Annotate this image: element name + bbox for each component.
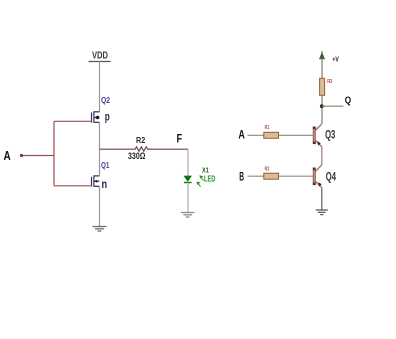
svg-text:X1: X1 bbox=[202, 166, 209, 174]
svg-text:B: B bbox=[239, 170, 244, 184]
svg-text:R2: R2 bbox=[265, 167, 270, 173]
svg-text:R1: R1 bbox=[265, 125, 270, 131]
svg-text:p: p bbox=[105, 110, 110, 124]
svg-text:R3: R3 bbox=[327, 79, 333, 85]
svg-text:A: A bbox=[238, 127, 245, 141]
svg-text:Q1: Q1 bbox=[101, 160, 109, 170]
svg-text:F: F bbox=[177, 132, 183, 146]
svg-text:n: n bbox=[102, 179, 108, 191]
svg-text:Q2: Q2 bbox=[101, 95, 110, 105]
svg-text:+V: +V bbox=[332, 55, 338, 64]
svg-text:A: A bbox=[4, 148, 11, 163]
svg-text:Q3: Q3 bbox=[325, 128, 335, 142]
svg-text:Q4: Q4 bbox=[326, 169, 336, 183]
svg-text:R2: R2 bbox=[136, 135, 145, 145]
svg-text:VDD: VDD bbox=[92, 51, 108, 62]
svg-text:330Ω: 330Ω bbox=[128, 151, 146, 161]
svg-text:LED: LED bbox=[204, 175, 216, 184]
svg-text:Q: Q bbox=[345, 95, 352, 106]
